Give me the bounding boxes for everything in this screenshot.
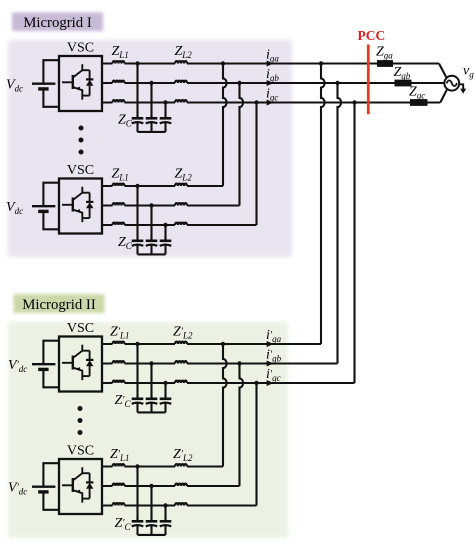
junction dot cap branch c MG2 u1 [163, 381, 167, 385]
Microgrid II region background [8, 322, 288, 538]
wire phase c (MG II unit 1) [102, 382, 355, 384]
wire diagonal phase a to source [439, 64, 446, 78]
junction dot dropper b MG2 [237, 361, 241, 365]
svg-text:VSC: VSC [67, 444, 94, 459]
wire phase a bus (Microgrid I) [102, 62, 439, 64]
grid impedance Zgc [410, 99, 428, 106]
wire filter-capacitor branch phase c (MG II unit 1) [164, 383, 166, 399]
svg-text:Zgc: Zgc [409, 84, 425, 100]
PCC line [367, 45, 370, 115]
svg-text:Microgrid I: Microgrid I [23, 15, 92, 31]
junction dot dropper a MG2 [221, 342, 225, 346]
Microgrid II title box [14, 294, 105, 313]
IGBT with anti-parallel diode inside Microgrid I unit 1 [62, 64, 93, 99]
wire phase a (MG II unit 1) [102, 343, 321, 345]
inductor ZL2 phase a (MG I u2) [175, 184, 187, 186]
wire filter-capacitor branch phase c (MG II unit 2) [164, 506, 166, 522]
current arrow i'gb [267, 361, 274, 367]
wire tie-line riser phase a (MG II to PCC bus) [321, 64, 325, 345]
capacitor ZC phase c (MG I unit 1) [160, 115, 172, 132]
svg-text:VSC: VSC [67, 321, 94, 336]
capacitor Z'C phase b (MG II unit 2) [146, 518, 158, 535]
DC source Vdc of Microgrid II unit 2 [32, 463, 59, 510]
inductor ZL2 phase b (MG I u1) [175, 81, 187, 83]
inductor Z'L1 phase b (MG II u2) [113, 484, 125, 486]
svg-text:PCC: PCC [358, 28, 386, 43]
capacitor Z'C phase c (MG II unit 1) [160, 396, 172, 413]
junction dot cap branch c MG1 u2 [163, 223, 167, 227]
inductor Z'L2 phase b (MG II u2) [175, 484, 187, 486]
current arrow igb [267, 80, 274, 86]
capacitor Z'C phase a (MG II unit 1) [132, 396, 144, 413]
inductor Z'L1 phase c (MG II u1) [113, 381, 125, 383]
junction dot cap branch b MG1 u1 [149, 81, 153, 85]
IGBT with anti-parallel diode inside Microgrid II unit 1 [62, 345, 93, 380]
junction dot cap branch b MG1 u2 [149, 203, 153, 207]
wire diagonal phase c to source [440, 90, 447, 103]
junction dot dropper b MG1 [237, 81, 241, 85]
junction dot dropper c MG2 [254, 381, 258, 385]
junction dot cap branch c MG2 u2 [163, 503, 167, 507]
inductor ZL2 phase c (MG I u2) [175, 223, 187, 225]
wire capacitor common bus (MG I unit 1) [138, 131, 166, 133]
capacitor ZC phase a (MG I unit 2) [132, 238, 144, 255]
wire filter-capacitor branch phase b (MG II unit 2) [150, 486, 152, 521]
wire capacitor common bus (MG II unit 1) [138, 411, 166, 413]
inductor ZL2 phase c (MG I u1) [175, 100, 187, 102]
inductor ZL1 phase b (MG I u1) [113, 81, 125, 83]
svg-text:VSC: VSC [67, 41, 94, 56]
wire paralleling dropper phase c (MG I) [255, 103, 257, 226]
vertical ellipsis (more units, MG II) [78, 406, 83, 435]
wire filter-capacitor branch phase a (MG I unit 2) [136, 186, 138, 241]
wire phase a (MG II unit 2) [102, 465, 223, 467]
wire filter-capacitor branch phase b (MG II unit 1) [150, 364, 152, 399]
wire phase a (MG I unit 2) [102, 185, 223, 187]
junction dot cap branch b MG2 u1 [149, 361, 153, 365]
Microgrid I region background [8, 40, 292, 257]
wire paralleling dropper phase b (MG II) [240, 364, 244, 487]
DC source Vdc of Microgrid I unit 1 [32, 60, 59, 107]
current arrow igc [267, 100, 274, 106]
inductor Z'L2 phase b (MG II u1) [175, 361, 187, 363]
wire capacitor common bus (MG I unit 2) [138, 253, 166, 255]
vertical ellipsis (more units, MG I) [79, 126, 84, 155]
inductor ZL1 phase c (MG I u2) [113, 223, 125, 225]
wire capacitor common bus (MG II unit 2) [138, 534, 166, 536]
wire phase b (MG II unit 1) [102, 362, 338, 364]
junction dot cap branch a MG1 u1 [135, 61, 139, 65]
DC source Vdc of Microgrid I unit 2 [32, 183, 59, 230]
grid voltage source vg [444, 76, 459, 91]
converter box VSC of Microgrid II unit 1 [59, 337, 102, 392]
wire filter-capacitor branch phase a (MG I unit 1) [136, 64, 138, 119]
junction dot riser c [352, 100, 356, 104]
inductor Z'L1 phase a (MG II u1) [113, 342, 125, 344]
wire phase c (MG I unit 2) [102, 224, 257, 226]
current arrow i'gc [267, 380, 274, 386]
inductor Z'L2 phase c (MG II u2) [175, 503, 187, 505]
svg-text:Zga: Zga [376, 44, 393, 60]
junction dot riser b [335, 81, 339, 85]
wire filter-capacitor branch phase a (MG II unit 1) [136, 344, 138, 399]
DC source Vdc of Microgrid II unit 1 [32, 341, 59, 388]
capacitor Z'C phase b (MG II unit 1) [146, 396, 158, 413]
wire paralleling dropper phase b (MG I) [240, 83, 244, 206]
wire phase b bus (Microgrid I) [102, 82, 444, 84]
inductor ZL1 phase a (MG I u1) [113, 61, 125, 63]
Microgrid I title box [12, 13, 103, 32]
wire filter-capacitor branch phase b (MG I unit 2) [150, 206, 152, 241]
current arrow iga [267, 61, 274, 67]
capacitor ZC phase c (MG I unit 2) [160, 238, 172, 255]
junction dot cap branch a MG1 u2 [135, 184, 139, 188]
svg-text:vg: vg [463, 64, 474, 80]
capacitor ZC phase b (MG I unit 2) [146, 238, 158, 255]
wire paralleling dropper phase a (MG I) [223, 64, 227, 187]
svg-text:Zgb: Zgb [394, 65, 411, 81]
inductor ZL1 phase b (MG I u2) [113, 203, 125, 205]
vg reference arrow [459, 84, 463, 89]
converter box VSC of Microgrid I unit 1 [59, 56, 102, 111]
svg-text:Microgrid II: Microgrid II [22, 297, 96, 313]
capacitor ZC phase b (MG I unit 1) [146, 115, 158, 132]
junction dot dropper a MG1 [221, 61, 225, 65]
inductor Z'L1 phase b (MG II u1) [113, 361, 125, 363]
grid impedance Zgb [395, 80, 412, 87]
inductor Z'L2 phase a (MG II u1) [175, 342, 187, 344]
inductor Z'L1 phase c (MG II u2) [113, 503, 125, 505]
junction dot cap branch b MG2 u2 [149, 484, 153, 488]
IGBT with anti-parallel diode inside Microgrid I unit 2 [62, 187, 93, 222]
inductor ZL2 phase b (MG I u2) [175, 203, 187, 205]
converter box VSC of Microgrid I unit 2 [59, 179, 102, 234]
wire filter-capacitor branch phase b (MG I unit 1) [150, 83, 152, 118]
junction dot riser a [319, 61, 323, 65]
wire paralleling dropper phase c (MG II) [255, 383, 257, 506]
grid impedance Zga [377, 60, 393, 67]
inductor ZL1 phase a (MG I u2) [113, 184, 125, 186]
wire phase c (MG II unit 2) [102, 504, 257, 506]
wire tie-line riser phase b [338, 83, 342, 364]
capacitor Z'C phase a (MG II unit 2) [132, 518, 144, 535]
svg-text:VSC: VSC [67, 163, 94, 178]
IGBT with anti-parallel diode inside Microgrid II unit 2 [62, 467, 93, 502]
inductor ZL1 phase c (MG I u1) [113, 100, 125, 102]
current arrow i'ga [267, 341, 274, 347]
wire filter-capacitor branch phase c (MG I unit 1) [164, 103, 166, 119]
wire filter-capacitor branch phase a (MG II unit 2) [136, 467, 138, 522]
wire filter-capacitor branch phase c (MG I unit 2) [164, 225, 166, 241]
inductor ZL2 phase a (MG I u1) [175, 61, 187, 63]
capacitor Z'C phase c (MG II unit 2) [160, 518, 172, 535]
junction dot cap branch c MG1 u1 [163, 100, 167, 104]
inductor Z'L2 phase a (MG II u2) [175, 464, 187, 466]
inductor Z'L2 phase c (MG II u1) [175, 381, 187, 383]
wire phase c bus (Microgrid I) [102, 101, 440, 103]
wire phase b (MG I unit 2) [102, 204, 240, 206]
wire paralleling dropper phase a (MG II) [223, 344, 227, 467]
junction dot cap branch a MG2 u2 [135, 464, 139, 468]
capacitor ZC phase a (MG I unit 1) [132, 115, 144, 132]
junction dot cap branch a MG2 u1 [135, 342, 139, 346]
wire tie-line riser phase c [353, 103, 355, 384]
converter box VSC of Microgrid II unit 2 [59, 459, 102, 514]
inductor Z'L1 phase a (MG II u2) [113, 464, 125, 466]
wire phase b (MG II unit 2) [102, 485, 240, 487]
junction dot dropper c MG1 [254, 100, 258, 104]
